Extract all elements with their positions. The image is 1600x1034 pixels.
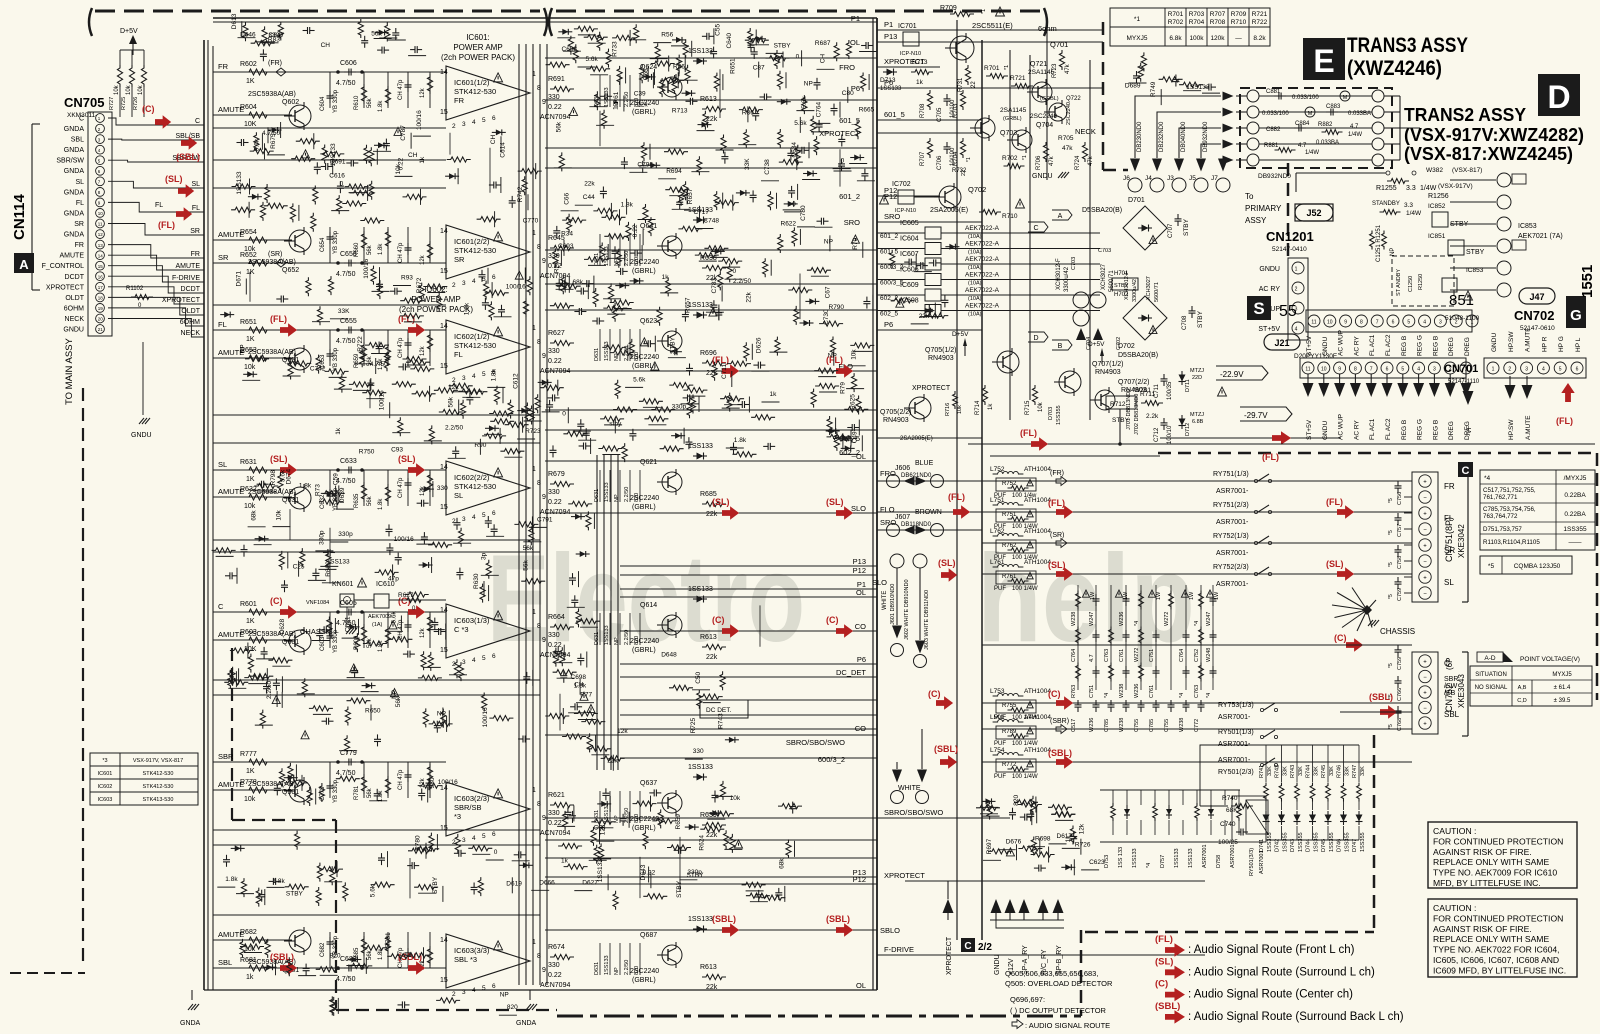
svg-text:R798: R798 <box>270 470 277 486</box>
svg-text:330p: 330p <box>672 403 687 410</box>
svg-text:D639: D639 <box>339 487 346 503</box>
svg-text:15: 15 <box>440 647 448 654</box>
svg-text:D746: D746 <box>1337 839 1343 852</box>
svg-text:1k: 1k <box>246 974 254 981</box>
svg-text:5.6k: 5.6k <box>794 120 807 127</box>
svg-text:1: 1 <box>532 609 536 616</box>
svg-text:2SA1145: 2SA1145 <box>1028 69 1055 76</box>
svg-text:C67: C67 <box>825 286 832 298</box>
svg-text:D741: D741 <box>1259 839 1265 852</box>
svg-text:GNDA: GNDA <box>64 147 85 154</box>
svg-text:0.22: 0.22 <box>548 104 562 111</box>
svg-text:1SS133: 1SS133 <box>1174 848 1180 868</box>
svg-text:CHASSIS: CHASSIS <box>1380 627 1415 636</box>
svg-text:330: 330 <box>548 632 560 639</box>
svg-text:330p: 330p <box>318 530 325 545</box>
svg-text:REPLACE ONLY WITH SAME: REPLACE ONLY WITH SAME <box>1433 857 1549 867</box>
svg-text:GNDU: GNDU <box>1322 421 1329 440</box>
svg-text:820: 820 <box>634 257 640 266</box>
svg-text:(GBRL): (GBRL) <box>632 825 656 832</box>
svg-text:15: 15 <box>440 109 448 116</box>
svg-text:(VSX-917V:XWZ4282): (VSX-917V:XWZ4282) <box>1404 125 1584 145</box>
svg-text:R679: R679 <box>548 471 565 478</box>
svg-text:RN4903: RN4903 <box>928 355 954 362</box>
svg-text:IC609 MFD, BY LITTELFUSE INC.: IC609 MFD, BY LITTELFUSE INC. <box>1433 965 1566 975</box>
svg-text:——: —— <box>1569 539 1583 546</box>
svg-text:6.8k: 6.8k <box>1169 35 1182 42</box>
svg-text:C704: C704 <box>1086 337 1092 350</box>
svg-text:Q501: Q501 <box>282 789 299 796</box>
svg-text:REG G: REG G <box>1417 419 1424 440</box>
svg-text:4: 4 <box>472 657 476 664</box>
svg-text:5.6k: 5.6k <box>586 56 599 63</box>
svg-text:R1102: R1102 <box>126 286 144 292</box>
svg-text:RY751(2/3): RY751(2/3) <box>1213 502 1249 509</box>
svg-text:GNDA: GNDA <box>180 1020 201 1027</box>
svg-text:1k: 1k <box>988 403 994 410</box>
svg-text:W236: W236 <box>1119 612 1125 626</box>
svg-text:1SS133: 1SS133 <box>604 341 610 361</box>
svg-text:15: 15 <box>440 363 448 370</box>
svg-text:XPROTECT: XPROTECT <box>884 871 925 880</box>
svg-text:18: 18 <box>98 296 104 301</box>
svg-text:W236: W236 <box>1089 718 1095 732</box>
svg-text:100/16: 100/16 <box>379 390 386 410</box>
svg-text:68k: 68k <box>573 279 584 286</box>
svg-text:± 61.4: ± 61.4 <box>1554 685 1571 691</box>
svg-text:R752: R752 <box>1002 481 1017 487</box>
svg-text:ASR7001: ASR7001 <box>1259 850 1265 874</box>
svg-text:DC_DET: DC_DET <box>836 668 866 677</box>
svg-text:(VSX-817:XWZ4245): (VSX-817:XWZ4245) <box>1404 144 1573 164</box>
svg-text:J52: J52 <box>1306 208 1321 218</box>
svg-text:8: 8 <box>537 85 541 92</box>
svg-text:1k: 1k <box>335 427 342 435</box>
svg-text:56k: 56k <box>523 545 534 552</box>
svg-text:C706: C706 <box>937 155 943 170</box>
svg-text:C883: C883 <box>1326 104 1341 110</box>
svg-text:C785,753,754,756,: C785,753,754,756, <box>1483 506 1536 513</box>
svg-text:J702 DB813ND0: J702 DB813ND0 <box>1134 394 1140 435</box>
svg-text:CAUTION :: CAUTION : <box>1433 826 1476 836</box>
svg-text:Q652: Q652 <box>282 267 299 274</box>
svg-text:56k: 56k <box>555 121 562 132</box>
svg-text:NP: NP <box>614 494 620 502</box>
svg-text:DB118ND0: DB118ND0 <box>901 522 932 528</box>
svg-text:YB 330p: YB 330p <box>333 347 339 371</box>
svg-text:A-D: A-D <box>1484 655 1496 662</box>
svg-text:DREG: DREG <box>1448 421 1455 440</box>
svg-text:R706: R706 <box>1036 155 1042 170</box>
svg-text:4: 4 <box>472 514 476 521</box>
svg-text:W236: W236 <box>1134 684 1140 698</box>
svg-text:YB 330p: YB 330p <box>333 779 339 803</box>
svg-text:56k: 56k <box>523 559 530 570</box>
svg-text:5600/71: 5600/71 <box>1109 270 1115 292</box>
svg-text:1SS355: 1SS355 <box>1563 526 1587 533</box>
svg-text:IC851: IC851 <box>1428 233 1446 240</box>
svg-text:GNDU: GNDU <box>994 954 1001 975</box>
svg-text:1W: 1W <box>1189 591 1195 600</box>
svg-text:-29.7V: -29.7V <box>1244 411 1268 420</box>
svg-text:C785: C785 <box>1149 719 1155 732</box>
svg-text:2: 2 <box>1295 287 1298 293</box>
svg-text:ICP-N10: ICP-N10 <box>900 51 921 57</box>
svg-text:R726: R726 <box>133 97 139 110</box>
svg-text:33K: 33K <box>1360 766 1366 776</box>
svg-text:AEK7022-A: AEK7022-A <box>965 225 1000 232</box>
svg-text:IC853: IC853 <box>1518 223 1537 230</box>
svg-text:51048-1100: 51048-1100 <box>1445 315 1480 322</box>
svg-text:(FL): (FL) <box>270 314 287 324</box>
svg-text:ICP-N10: ICP-N10 <box>895 208 916 214</box>
svg-text:C780: C780 <box>800 205 807 221</box>
svg-text:ASR7001-: ASR7001- <box>1216 488 1249 495</box>
svg-text:MFD, BY LITTELFUSE INC.: MFD, BY LITTELFUSE INC. <box>1433 878 1541 888</box>
svg-text:DREG: DREG <box>1464 337 1471 356</box>
svg-text:1.8k: 1.8k <box>378 243 384 255</box>
svg-text:C: C <box>79 116 84 123</box>
svg-text:ST ANDBY: ST ANDBY <box>1396 269 1402 296</box>
svg-text:ASR7001: ASR7001 <box>1202 844 1208 868</box>
svg-text:P6: P6 <box>857 655 866 664</box>
svg-text:100/16: 100/16 <box>363 258 370 278</box>
svg-text:(C): (C) <box>1155 979 1168 990</box>
svg-text:DB232ND0: DB232ND0 <box>1159 121 1165 152</box>
svg-text:R702: R702 <box>1002 155 1018 162</box>
svg-text:ASR7001-: ASR7001- <box>1218 757 1251 764</box>
svg-text:22D: 22D <box>1192 375 1202 381</box>
svg-text:AC RY: AC RY <box>1353 420 1360 440</box>
svg-text:761,762,771: 761,762,771 <box>1483 494 1518 501</box>
svg-text:IC852: IC852 <box>1428 203 1446 210</box>
svg-text:1.8k: 1.8k <box>464 302 471 315</box>
svg-text:9: 9 <box>542 353 546 360</box>
svg-text:-22.9V: -22.9V <box>1220 370 1244 379</box>
svg-text:C703: C703 <box>1098 248 1111 254</box>
svg-text:AGAINST RISK OF FIRE.: AGAINST RISK OF FIRE. <box>1433 924 1532 934</box>
svg-text:20: 20 <box>98 317 104 322</box>
svg-text:(SL): (SL) <box>826 497 844 507</box>
svg-text:−: − <box>1423 675 1427 681</box>
svg-text:(FL): (FL) <box>158 220 175 230</box>
svg-text:P12: P12 <box>853 566 866 575</box>
svg-text:Q721: Q721 <box>1030 61 1047 68</box>
svg-text:FL AC1: FL AC1 <box>1369 334 1376 356</box>
svg-text:POWER AMP: POWER AMP <box>453 43 502 52</box>
svg-text:SBL *3: SBL *3 <box>454 955 477 964</box>
svg-text:FOR CONTINUED PROTECTION: FOR CONTINUED PROTECTION <box>1433 836 1563 846</box>
svg-text:−: − <box>1423 528 1427 534</box>
svg-text:(SR): (SR) <box>1050 532 1064 539</box>
svg-text:(VSX-817): (VSX-817) <box>1452 167 1482 174</box>
svg-text:1551: 1551 <box>1579 265 1596 298</box>
svg-text:3300u/42: 3300u/42 <box>1132 279 1138 302</box>
svg-text:C751: C751 <box>1089 685 1095 698</box>
svg-text:W248: W248 <box>1206 648 1212 662</box>
svg-text:AMUTE: AMUTE <box>176 263 201 270</box>
svg-text:820: 820 <box>634 966 640 975</box>
svg-text:W238: W238 <box>1071 612 1077 626</box>
svg-text:C604: C604 <box>320 96 326 111</box>
svg-text:J5: J5 <box>1189 175 1196 182</box>
svg-text:100/35: 100/35 <box>1167 381 1173 400</box>
svg-text:0.22: 0.22 <box>548 499 562 506</box>
svg-text:IC603(2/3): IC603(2/3) <box>454 794 490 803</box>
svg-text:FL AC2: FL AC2 <box>1385 334 1392 356</box>
svg-text:D627: D627 <box>582 880 598 887</box>
svg-text:6: 6 <box>492 983 496 990</box>
svg-text:SBRO/SBO/SWO: SBRO/SBO/SWO <box>884 808 943 817</box>
svg-text:D758: D758 <box>1216 855 1222 868</box>
svg-text:IC601(1/2): IC601(1/2) <box>454 78 490 87</box>
svg-text:(SL): (SL) <box>165 174 183 184</box>
svg-text:GNDU: GNDU <box>63 327 84 334</box>
svg-text:R745: R745 <box>1321 765 1327 778</box>
svg-text:FLO: FLO <box>880 505 895 514</box>
svg-text:R694: R694 <box>666 168 682 175</box>
svg-text:TRANS2 ASSY: TRANS2 ASSY <box>1404 105 1526 125</box>
svg-text:100/16: 100/16 <box>416 110 423 130</box>
svg-text:*4: *4 <box>1104 693 1110 698</box>
svg-text:(SL): (SL) <box>712 497 730 507</box>
svg-text:GNDU: GNDU <box>131 432 152 439</box>
svg-text:R707: R707 <box>920 151 926 166</box>
svg-text:601_2: 601_2 <box>839 192 860 201</box>
svg-text:2.2/50: 2.2/50 <box>624 630 630 645</box>
svg-text:R613: R613 <box>700 96 717 103</box>
svg-text:4: 4 <box>1423 320 1426 326</box>
svg-text:OL: OL <box>850 38 860 47</box>
svg-text:0.22BA: 0.22BA <box>1564 511 1586 518</box>
svg-text:DB932ND0: DB932ND0 <box>1258 173 1291 180</box>
svg-text:2.2/50: 2.2/50 <box>624 960 630 975</box>
svg-text:2SC5511(E): 2SC5511(E) <box>972 21 1013 30</box>
svg-text:4.7/50: 4.7/50 <box>336 271 356 278</box>
svg-text:9: 9 <box>542 258 546 265</box>
svg-text:(SBL): (SBL) <box>1155 1001 1180 1012</box>
svg-text:1.8k: 1.8k <box>273 878 286 885</box>
svg-text:(C): (C) <box>1048 689 1061 699</box>
svg-text:6: 6 <box>1392 320 1395 326</box>
svg-text:−: − <box>1423 706 1427 712</box>
svg-text:(GRBL): (GRBL) <box>1003 116 1022 122</box>
svg-text:REPLACE ONLY WITH SAME: REPLACE ONLY WITH SAME <box>1433 934 1549 944</box>
svg-text:R789: R789 <box>1002 729 1017 735</box>
svg-text:DCDT: DCDT <box>181 286 201 293</box>
svg-text:5: 5 <box>482 985 486 992</box>
svg-text:C: C <box>1033 225 1038 232</box>
svg-text:R627: R627 <box>548 330 565 337</box>
svg-text:R701: R701 <box>984 65 1000 72</box>
svg-text:F-DRIVE: F-DRIVE <box>172 275 200 282</box>
svg-text:4: 4 <box>472 987 476 994</box>
svg-text:(FL): (FL) <box>1262 452 1279 462</box>
svg-text:IC603: IC603 <box>98 797 113 803</box>
svg-text:NECK: NECK <box>1075 127 1096 136</box>
svg-text:C711: C711 <box>1154 383 1160 398</box>
svg-text:1/4W: 1/4W <box>1420 185 1437 192</box>
svg-text:1SS355: 1SS355 <box>1298 832 1304 852</box>
svg-text:C654: C654 <box>320 237 326 252</box>
svg-text:R780: R780 <box>415 835 422 851</box>
svg-text:7: 7 <box>1370 367 1373 373</box>
svg-text:FR: FR <box>1444 482 1455 491</box>
svg-text:AEK7009: AEK7009 <box>368 614 391 620</box>
svg-text:REG B: REG B <box>1432 420 1439 440</box>
svg-text:D671: D671 <box>235 271 242 287</box>
svg-text:33K: 33K <box>1345 766 1351 776</box>
svg-text:MTZJ: MTZJ <box>1190 368 1204 374</box>
svg-text:68k: 68k <box>779 858 786 869</box>
svg-text:OLDT: OLDT <box>65 295 84 302</box>
svg-text:*1: *1 <box>1134 16 1141 23</box>
svg-text:IC602: IC602 <box>98 784 113 790</box>
svg-text:DC DET.: DC DET. <box>706 707 731 714</box>
svg-text:10k: 10k <box>244 503 256 510</box>
svg-text:12k: 12k <box>1079 823 1086 834</box>
svg-text:STK412-530: STK412-530 <box>143 784 174 790</box>
svg-text:D+5V: D+5V <box>120 28 138 35</box>
svg-text:J7: J7 <box>1211 175 1218 182</box>
svg-text:601_5: 601_5 <box>884 110 905 119</box>
svg-text:1: 1 <box>532 939 536 946</box>
svg-text:D703: D703 <box>1048 407 1054 420</box>
svg-text:(FL): (FL) <box>1020 428 1037 438</box>
svg-text:3.3: 3.3 <box>1406 185 1416 192</box>
svg-text:M: M <box>1343 95 1348 101</box>
svg-text:D628: D628 <box>279 618 286 634</box>
svg-text:3: 3 <box>462 989 466 996</box>
svg-text:+: + <box>1423 480 1427 486</box>
svg-text:R742: R742 <box>1275 765 1281 778</box>
svg-text:Q637: Q637 <box>640 780 657 787</box>
svg-text:C,D: C,D <box>1517 698 1527 704</box>
svg-text:W247: W247 <box>1206 612 1212 626</box>
svg-text:R743: R743 <box>1290 765 1296 778</box>
svg-text:AC WUP: AC WUP <box>1338 330 1345 356</box>
svg-text:10: 10 <box>98 211 104 216</box>
svg-text:GNDU: GNDU <box>1491 333 1498 352</box>
svg-text:R601: R601 <box>240 601 257 608</box>
svg-text:9: 9 <box>1338 367 1341 373</box>
svg-text:NP: NP <box>1390 248 1396 256</box>
svg-text:68k: 68k <box>251 510 258 521</box>
svg-text:+: + <box>1423 660 1427 666</box>
svg-text:17: 17 <box>98 285 104 290</box>
svg-text:R705: R705 <box>1058 135 1074 142</box>
svg-text:−: − <box>1423 560 1427 566</box>
svg-text:3p: 3p <box>481 552 488 560</box>
svg-text:10k: 10k <box>244 796 256 803</box>
svg-text:10k: 10k <box>114 84 120 95</box>
svg-text:100 1/4W: 100 1/4W <box>1012 586 1038 592</box>
svg-text:820: 820 <box>330 952 341 959</box>
svg-text:5: 5 <box>482 117 486 124</box>
svg-text:YB 330p: YB 330p <box>333 89 339 113</box>
svg-text:NP: NP <box>828 353 837 360</box>
svg-text:5.6k: 5.6k <box>369 884 376 897</box>
svg-text:ATH1004: ATH1004 <box>1024 528 1051 535</box>
svg-text:C759: C759 <box>1397 588 1403 601</box>
svg-text:FR: FR <box>191 251 200 258</box>
svg-text:ASR7001-: ASR7001- <box>1216 519 1249 526</box>
svg-text:C791: C791 <box>537 516 553 523</box>
svg-text:R710: R710 <box>1231 19 1247 26</box>
svg-text:R772: R772 <box>1002 762 1017 768</box>
svg-text:(FL): (FL) <box>1048 498 1065 508</box>
svg-text:R698: R698 <box>1035 836 1051 843</box>
svg-text:STK413-530: STK413-530 <box>143 797 174 803</box>
svg-text:SBLO: SBLO <box>880 926 900 935</box>
svg-text:STBY: STBY <box>774 42 792 49</box>
svg-text:763,764,772: 763,764,772 <box>1483 513 1518 520</box>
svg-text:P6: P6 <box>884 320 893 329</box>
svg-text:Q705(1/2): Q705(1/2) <box>925 347 957 354</box>
svg-text:HP R: HP R <box>1541 336 1548 352</box>
svg-text:R716: R716 <box>945 403 951 416</box>
svg-text:(GBRL): (GBRL) <box>632 109 656 116</box>
svg-text:SBR: SBR <box>218 752 234 761</box>
svg-text:1.8k: 1.8k <box>299 482 312 489</box>
svg-text:NP: NP <box>240 344 247 353</box>
svg-text:C758: C758 <box>1397 556 1403 569</box>
svg-text:R682: R682 <box>240 929 257 936</box>
svg-text:820: 820 <box>634 636 640 645</box>
svg-text:IC604: IC604 <box>900 236 919 243</box>
svg-text:C39: C39 <box>634 91 646 98</box>
svg-text:R659: R659 <box>675 814 682 830</box>
svg-text:(SL): (SL) <box>1326 559 1344 569</box>
svg-text:7: 7 <box>1376 320 1379 326</box>
svg-text:PUF: PUF <box>994 774 1006 780</box>
svg-text:Q696,697:: Q696,697: <box>1010 995 1045 1004</box>
svg-text:C772: C772 <box>1194 719 1200 732</box>
svg-text:ATH1004: ATH1004 <box>1024 714 1051 721</box>
svg-text:C761: C761 <box>1119 649 1125 662</box>
svg-text:C764: C764 <box>1179 649 1185 662</box>
svg-text:J21: J21 <box>1274 338 1289 348</box>
svg-text:R56: R56 <box>661 32 673 39</box>
svg-text:D713: D713 <box>880 77 896 84</box>
svg-text:47k: 47k <box>1049 155 1055 166</box>
svg-text:0.033/100: 0.033/100 <box>1292 95 1319 101</box>
svg-text:2SA2005(E): 2SA2005(E) <box>900 436 933 442</box>
svg-text:D619: D619 <box>506 880 522 887</box>
svg-text:3: 3 <box>462 516 466 523</box>
svg-text:: AUDIO SIGNAL ROUTE: : AUDIO SIGNAL ROUTE <box>1025 1021 1110 1030</box>
svg-text:D747: D747 <box>1352 839 1358 852</box>
svg-text:1SS133: 1SS133 <box>1132 848 1138 868</box>
svg-text:IC701: IC701 <box>898 23 917 30</box>
svg-text:(GBRL): (GBRL) <box>632 647 656 654</box>
svg-text:AEK7022-A: AEK7022-A <box>965 241 1000 248</box>
svg-text:(SBL): (SBL) <box>826 914 850 924</box>
svg-text:C756: C756 <box>1397 492 1403 505</box>
svg-text:P13: P13 <box>884 32 897 41</box>
svg-text:8: 8 <box>537 801 541 808</box>
svg-text:SLO: SLO <box>872 578 887 587</box>
svg-text:10: 10 <box>1321 367 1327 373</box>
svg-text:R613: R613 <box>700 964 717 971</box>
svg-text:Q705(2/2): Q705(2/2) <box>880 409 912 416</box>
svg-text:8.2k: 8.2k <box>1253 35 1266 42</box>
svg-text:Q702: Q702 <box>968 185 986 194</box>
svg-text:1k: 1k <box>770 391 778 398</box>
svg-text:PRIMARY: PRIMARY <box>1245 204 1282 213</box>
svg-text:9: 9 <box>1344 320 1347 326</box>
svg-text:: Audio Signal Route (Front L: : Audio Signal Route (Front L ch) <box>1188 944 1355 956</box>
